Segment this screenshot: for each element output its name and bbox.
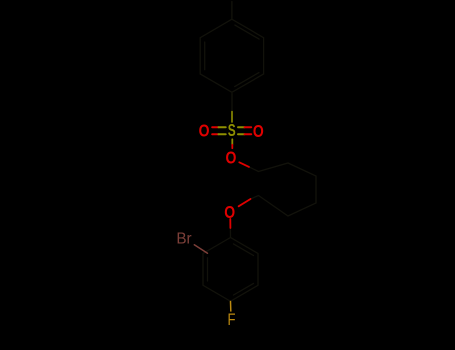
svg-text:O: O (226, 149, 237, 168)
svg-text:S: S (228, 121, 236, 141)
svg-text:O: O (224, 204, 235, 223)
svg-text:F: F (228, 311, 236, 330)
svg-text:Br: Br (176, 230, 191, 247)
svg-text:O: O (199, 122, 210, 141)
svg-text:O: O (253, 123, 264, 142)
